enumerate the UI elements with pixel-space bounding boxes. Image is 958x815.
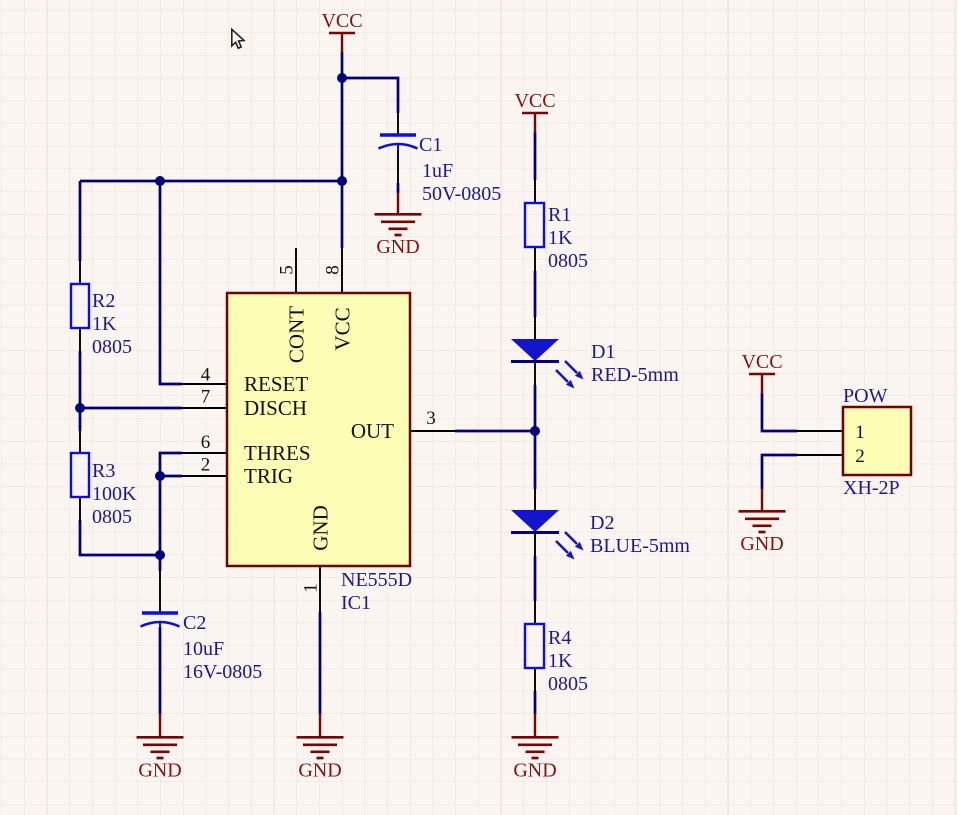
svg-text:TRIG: TRIG <box>244 464 293 488</box>
svg-text:GND: GND <box>376 236 419 258</box>
pin R1 top <box>534 179 536 203</box>
resistor R3 <box>71 453 137 528</box>
svg-text:VCC: VCC <box>331 307 355 350</box>
svg-text:0805: 0805 <box>548 673 588 695</box>
resistor R1 <box>525 203 588 272</box>
resistor R2 <box>71 284 132 358</box>
svg-text:VCC: VCC <box>741 351 782 373</box>
pin R3 bottom <box>79 497 81 522</box>
svg-text:THRES: THRES <box>244 441 311 465</box>
power port GND (R4) <box>512 713 559 782</box>
svg-text:16V-0805: 16V-0805 <box>183 661 262 683</box>
svg-text:R2: R2 <box>92 290 115 312</box>
pin R2 top <box>79 259 81 284</box>
junction R3/C2 <box>155 550 165 560</box>
svg-text:1K: 1K <box>548 650 573 672</box>
pin D1 bottom <box>534 362 536 386</box>
pin D1 top <box>534 316 536 340</box>
wire junction to C2 <box>159 555 162 571</box>
pin R1 bottom <box>534 247 536 272</box>
wire D1 to D2 <box>534 385 537 489</box>
wire POW pin2 to GND <box>762 455 797 489</box>
pin POW pin2 <box>796 454 843 456</box>
svg-text:1K: 1K <box>548 227 573 249</box>
svg-text:1uF: 1uF <box>422 160 453 182</box>
svg-text:R4: R4 <box>548 627 571 649</box>
pin R3 top <box>79 429 81 453</box>
svg-text:5: 5 <box>277 265 298 275</box>
svg-text:0805: 0805 <box>92 506 132 528</box>
svg-text:1K: 1K <box>92 313 117 335</box>
power port GND (POW pin2) <box>739 488 786 555</box>
svg-text:GND: GND <box>740 533 783 555</box>
pin IC pin8 stub <box>341 248 343 294</box>
power port VCC (POW branch) <box>741 351 782 394</box>
capacitor C1 (polarized) <box>379 134 502 205</box>
pin R4 bottom <box>534 668 536 692</box>
pin IC pin7 stub <box>181 407 228 409</box>
wire R4 to GND <box>534 691 537 714</box>
svg-text:R1: R1 <box>548 204 571 226</box>
mouse cursor <box>232 29 244 48</box>
svg-text:0805: 0805 <box>92 336 132 358</box>
wire pin4 drop <box>160 181 182 384</box>
wire D2 to R4 <box>534 556 537 601</box>
pin IC pin4 stub <box>181 383 228 385</box>
pin D2 bottom <box>534 533 536 557</box>
svg-text:DISCH: DISCH <box>244 396 307 420</box>
wire pin7 to R2/R3 junction <box>80 407 182 410</box>
pin R4 top <box>534 600 536 624</box>
power port GND (C2) <box>137 713 184 782</box>
pin POW pin1 <box>796 430 843 432</box>
svg-text:CONT: CONT <box>285 306 309 363</box>
wire horizontal bus y=181 <box>80 180 342 183</box>
svg-text:VCC: VCC <box>514 90 555 112</box>
pin IC pin1 stub <box>319 565 321 613</box>
svg-text:RESET: RESET <box>244 372 308 396</box>
wire R3 bottom <box>80 520 160 555</box>
pin IC pin5 stub <box>295 248 297 294</box>
junction VCC1/C1 <box>337 73 347 83</box>
wire VCC1 vertical to pin8 <box>341 52 344 248</box>
svg-text:GND: GND <box>309 505 333 551</box>
svg-text:C2: C2 <box>183 612 206 634</box>
svg-text:VCC: VCC <box>321 10 362 32</box>
wire C2 bottom <box>159 627 162 714</box>
pin IC pin2 stub <box>181 475 228 477</box>
wire pin2 stub <box>160 475 182 478</box>
svg-text:1: 1 <box>855 422 865 443</box>
power port GND (IC pin1) <box>297 713 344 782</box>
wire VCC2 to R1 <box>534 132 537 180</box>
svg-text:10uF: 10uF <box>183 638 224 660</box>
junction bus/pin8 <box>337 176 347 186</box>
svg-text:D1: D1 <box>591 341 615 363</box>
junction R2/R3/pin7 <box>75 403 85 413</box>
wire pin1 to GND <box>319 612 322 714</box>
svg-text:BLUE-5mm: BLUE-5mm <box>590 535 690 557</box>
junction OUT/D1/D2 <box>530 426 540 436</box>
junction bus/R2 drop <box>155 176 165 186</box>
svg-text:0805: 0805 <box>548 250 588 272</box>
svg-text:50V-0805: 50V-0805 <box>422 183 501 205</box>
wire R2 bottom to junction <box>79 351 82 431</box>
svg-text:2: 2 <box>201 455 211 476</box>
svg-text:GND: GND <box>138 760 181 782</box>
pin IC pin6 stub <box>181 452 228 454</box>
svg-text:6: 6 <box>201 432 211 453</box>
op-amp/timer IC1 body <box>227 293 412 614</box>
svg-text:C1: C1 <box>419 134 442 156</box>
svg-text:XH-2P: XH-2P <box>843 477 900 499</box>
wire VCC1 to C1 top <box>342 78 398 113</box>
LED D2 <box>511 510 690 560</box>
svg-text:8: 8 <box>323 265 344 275</box>
power port VCC (top, net 1) <box>321 10 362 53</box>
wire R1 to D1 <box>534 271 537 317</box>
svg-text:GND: GND <box>298 760 341 782</box>
svg-text:GND: GND <box>513 760 556 782</box>
power port GND (C1) <box>375 192 422 258</box>
svg-text:NE555D: NE555D <box>341 569 412 591</box>
svg-text:OUT: OUT <box>351 419 394 443</box>
wire C1 bottom <box>397 183 400 193</box>
capacitor C2 (polarized) <box>141 612 263 683</box>
pin D2 top <box>534 488 536 511</box>
svg-text:4: 4 <box>201 365 211 386</box>
svg-text:3: 3 <box>426 408 436 429</box>
power port VCC (R1 branch) <box>514 90 555 133</box>
svg-text:1: 1 <box>301 583 322 593</box>
svg-text:D2: D2 <box>590 512 614 534</box>
svg-text:IC1: IC1 <box>341 592 371 614</box>
pin R2 bottom <box>79 328 81 353</box>
pin C1 top <box>397 112 399 134</box>
svg-text:POW: POW <box>843 385 888 407</box>
resistor R4 <box>525 624 588 695</box>
pin IC pin3 stub <box>410 430 456 432</box>
wire OUT net <box>455 430 535 433</box>
svg-text:7: 7 <box>201 387 211 408</box>
wire R2 top drop <box>79 181 82 261</box>
wire pin6 drop <box>160 453 182 555</box>
junction pin2/pin6 <box>155 471 165 481</box>
svg-text:RED-5mm: RED-5mm <box>591 364 679 386</box>
pin C1 bottom <box>397 149 399 184</box>
svg-text:100K: 100K <box>92 483 137 505</box>
LED D1 <box>511 339 679 389</box>
svg-text:2: 2 <box>855 446 865 467</box>
wire POW pin1 to VCC3 <box>762 393 797 431</box>
pin C2 top <box>159 570 161 612</box>
svg-text:R3: R3 <box>92 460 115 482</box>
